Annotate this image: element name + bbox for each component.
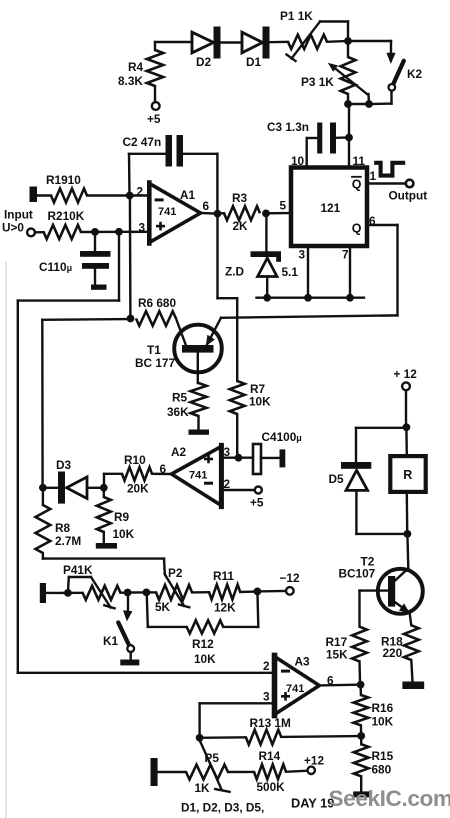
wire	[240, 590, 254, 593]
svg-text:741: 741	[158, 206, 176, 218]
wire pin3	[81, 231, 149, 234]
label Qbar	[352, 177, 362, 192]
wire pin10	[306, 138, 308, 167]
svg-text:7: 7	[342, 248, 349, 262]
ground R5	[189, 430, 210, 435]
wire	[228, 771, 254, 773]
node pin2 A1	[126, 192, 134, 200]
node R13/P5	[196, 734, 204, 742]
resistor R9	[97, 497, 111, 532]
wire	[158, 771, 186, 773]
svg-text:121: 121	[321, 201, 341, 215]
node pin3 drop	[115, 228, 123, 236]
svg-text:P3 1K: P3 1K	[301, 75, 334, 89]
wire	[121, 591, 126, 594]
wire	[103, 532, 105, 543]
wire	[358, 591, 360, 627]
svg-text:15K: 15K	[326, 648, 348, 662]
node R12 left top	[143, 589, 151, 597]
svg-text:R5: R5	[172, 391, 188, 405]
capacitor C1	[80, 251, 111, 290]
node R3/pin5	[262, 210, 270, 218]
terminal Input	[27, 229, 35, 237]
zener diode Z.D 5.1	[251, 251, 282, 294]
svg-text:10K: 10K	[194, 652, 216, 666]
wire	[411, 660, 412, 682]
svg-text:6: 6	[203, 199, 210, 213]
svg-text:P2: P2	[168, 566, 183, 580]
resistor R8	[36, 505, 51, 553]
svg-text:P5: P5	[205, 751, 220, 765]
label plus A3	[281, 692, 290, 701]
node zener/rail	[263, 294, 271, 302]
label minus A3	[281, 670, 290, 673]
wire	[218, 212, 225, 215]
wire	[348, 103, 369, 105]
svg-text:+ 12: + 12	[394, 367, 418, 381]
wire	[281, 735, 358, 738]
wire	[360, 736, 362, 744]
wire	[197, 416, 199, 430]
svg-text:10K: 10K	[372, 715, 394, 729]
svg-text:+12: +12	[304, 754, 324, 768]
terminal bar R1	[30, 187, 38, 203]
resistor R7	[230, 381, 245, 414]
svg-text:741: 741	[189, 470, 207, 482]
svg-text:3: 3	[263, 690, 270, 704]
wire rail	[257, 297, 365, 299]
wire pin2 down	[129, 196, 132, 319]
diode D2	[192, 27, 221, 59]
terminal +12 bottom	[308, 767, 315, 774]
resistor R14	[254, 764, 286, 779]
node A3 out	[357, 681, 365, 689]
svg-text:10K: 10K	[113, 527, 135, 541]
svg-text:680: 680	[372, 763, 392, 777]
wire pin3 A3	[200, 703, 274, 734]
label minus A1	[155, 198, 164, 201]
resistor R6	[136, 311, 176, 326]
svg-text:U>0: U>0	[2, 221, 24, 235]
ground R15	[353, 791, 371, 797]
svg-text:A1: A1	[180, 188, 196, 202]
wire A3 out	[319, 684, 357, 687]
svg-text:20K: 20K	[127, 482, 149, 496]
svg-text:R11: R11	[213, 569, 234, 583]
wire	[348, 40, 391, 42]
wire	[200, 736, 246, 739]
svg-text:12K: 12K	[214, 601, 236, 615]
svg-text:5.1: 5.1	[282, 265, 299, 279]
wire C2 right	[183, 154, 217, 214]
terminal Output	[406, 180, 414, 188]
resistor R5	[191, 383, 207, 416]
wire pin2	[87, 194, 149, 196]
svg-text:5: 5	[280, 199, 287, 213]
svg-text:1: 1	[370, 169, 377, 183]
svg-text:741: 741	[286, 683, 304, 695]
potentiometer P1	[287, 22, 349, 62]
transistor T1 BC177	[174, 318, 222, 383]
wire	[152, 473, 172, 476]
svg-text:R16: R16	[372, 701, 394, 715]
wire pin6-Q	[221, 225, 398, 318]
svg-text:1K: 1K	[195, 781, 211, 795]
node P4 wiper	[64, 589, 72, 597]
wire	[257, 590, 285, 593]
resistor R4	[147, 50, 163, 86]
svg-text:D5: D5	[329, 472, 345, 486]
wire pin3 A2	[222, 457, 253, 459]
svg-text:C2 47n: C2 47n	[123, 135, 162, 149]
potentiometer P5	[186, 765, 228, 780]
svg-text:P1 1K: P1 1K	[280, 9, 313, 23]
wire C2 left	[129, 154, 166, 196]
svg-text:R1910: R1910	[46, 173, 81, 187]
resistor R18	[404, 625, 419, 660]
scan edge line	[5, 262, 7, 818]
terminal bar P5	[151, 758, 158, 786]
svg-text:11: 11	[353, 154, 366, 168]
wire	[406, 492, 409, 531]
svg-text:SeekIC.com: SeekIC.com	[329, 786, 450, 811]
resistor R15	[354, 744, 369, 776]
svg-text:R3: R3	[232, 191, 248, 205]
node +12	[403, 423, 411, 431]
ground R18	[402, 682, 424, 690]
svg-text:8.3K: 8.3K	[118, 74, 143, 88]
diode D3	[46, 472, 100, 504]
svg-text:A2: A2	[171, 445, 187, 459]
wire pin2 A2	[222, 489, 255, 491]
svg-text:+5: +5	[147, 112, 161, 126]
svg-text:500K: 500K	[257, 780, 286, 794]
wire	[154, 86, 156, 102]
pulse waveform icon	[374, 163, 405, 176]
potentiometer P4	[62, 577, 121, 608]
wire	[43, 553, 165, 574]
resistor R1	[51, 189, 87, 203]
wire	[405, 427, 408, 456]
svg-text:10K: 10K	[249, 395, 271, 409]
wire pin1-output	[367, 182, 406, 184]
resistor R13	[246, 730, 281, 745]
node relay bottom	[404, 530, 412, 538]
wire	[192, 591, 209, 594]
terminal +5 A2	[255, 487, 262, 494]
node R6	[127, 315, 135, 323]
potentiometer P5 wiper	[200, 738, 230, 792]
svg-text:D3: D3	[56, 458, 72, 472]
svg-text:A3: A3	[295, 655, 311, 669]
switch K2	[386, 53, 403, 91]
node C1	[91, 228, 99, 236]
capacitor C3	[307, 123, 346, 154]
svg-text:BC107: BC107	[339, 567, 376, 581]
svg-text:BC 177: BC 177	[135, 356, 175, 370]
wire pin3 to rail	[18, 232, 119, 673]
terminal +5 (R4)	[152, 102, 160, 110]
svg-text:K2: K2	[407, 67, 423, 81]
potentiometer P2	[156, 574, 192, 607]
svg-text:D1: D1	[246, 55, 262, 69]
terminal +12 top	[402, 382, 410, 390]
wire	[128, 591, 144, 593]
node P3 bottom	[344, 100, 352, 108]
label plus A1	[156, 222, 165, 231]
wire	[405, 390, 407, 424]
wire	[286, 771, 307, 772]
wire	[37, 194, 51, 196]
resistor R12	[187, 620, 224, 633]
wire pin7	[349, 246, 351, 298]
svg-text:3: 3	[299, 248, 306, 262]
wire	[369, 91, 392, 104]
wire	[46, 592, 62, 594]
svg-text:Z.D: Z.D	[225, 265, 244, 279]
relay R	[390, 456, 425, 492]
wire	[221, 41, 243, 43]
wire L2 horiz	[42, 319, 130, 488]
wire	[146, 591, 156, 593]
svg-text:K1: K1	[103, 634, 119, 648]
wire pin11	[348, 138, 350, 168]
svg-text:R13 1M: R13 1M	[250, 716, 291, 730]
svg-text:R210K: R210K	[48, 209, 85, 223]
diode D5	[341, 462, 404, 534]
wire	[265, 213, 267, 251]
wire pin6 A1	[201, 212, 215, 215]
wire	[359, 685, 362, 695]
resistor R16	[354, 695, 369, 725]
svg-text:Q: Q	[352, 178, 362, 192]
wire	[410, 613, 412, 626]
svg-text:220: 220	[383, 646, 403, 660]
wire	[390, 41, 392, 54]
svg-text:Q: Q	[352, 222, 362, 236]
op-amp A2	[172, 445, 222, 506]
op-amp A1	[149, 183, 201, 244]
svg-text:C3 1.3n: C3 1.3n	[267, 120, 309, 134]
label minus A2	[204, 482, 213, 485]
node R16/R15/R13	[357, 732, 365, 740]
node D3 left	[39, 484, 47, 492]
svg-text:+5: +5	[250, 496, 264, 510]
svg-text:C4100μ: C4100μ	[262, 430, 302, 444]
wire	[236, 414, 238, 458]
svg-text:R12: R12	[192, 637, 214, 651]
wire	[360, 776, 362, 791]
node A2 pin3	[235, 454, 243, 462]
wire	[35, 231, 44, 234]
resistor R10	[122, 467, 152, 480]
node K1 top	[124, 589, 132, 597]
wire	[103, 488, 105, 497]
wire	[223, 594, 258, 627]
wire pin5	[266, 212, 291, 215]
wire	[155, 42, 192, 50]
wire A1out down	[218, 214, 238, 381]
switch K1	[118, 593, 139, 666]
ground R9	[96, 543, 117, 549]
op-amp A3	[274, 655, 319, 715]
svg-text:−12: −12	[280, 571, 300, 585]
capacitor C2	[166, 135, 184, 167]
svg-text:R8: R8	[55, 521, 71, 535]
label plus A2	[204, 455, 213, 464]
node C3/pin11	[345, 134, 353, 142]
svg-text:T1: T1	[147, 343, 161, 357]
svg-text:R10: R10	[124, 453, 146, 467]
wire	[94, 232, 96, 251]
transistor T2 BC107	[360, 568, 423, 614]
svg-text:R4: R4	[128, 60, 144, 74]
svg-text:R6 680: R6 680	[138, 296, 176, 310]
node pin3/rail	[304, 294, 312, 302]
capacitor C4	[253, 444, 285, 474]
node P1/P3/K2	[344, 37, 352, 45]
svg-text:2.7M: 2.7M	[55, 534, 81, 548]
svg-text:R: R	[403, 468, 412, 482]
resistor R17	[352, 627, 367, 662]
svg-text:R9: R9	[114, 510, 130, 524]
wire	[347, 94, 349, 104]
svg-text:D1, D2, D3, D5,: D1, D2, D3, D5,	[181, 801, 264, 815]
svg-text:10: 10	[291, 154, 305, 168]
resistor R11	[209, 585, 240, 600]
svg-text:5K: 5K	[155, 600, 171, 614]
svg-text:Output: Output	[389, 189, 428, 203]
wire A3 pin2 rail	[18, 672, 274, 674]
terminal bar P4	[40, 583, 46, 603]
wire	[360, 725, 363, 732]
diode D1	[242, 27, 270, 59]
svg-text:D2: D2	[196, 55, 212, 69]
resistor R2	[44, 225, 81, 239]
wire pin3	[307, 246, 309, 298]
svg-text:2K: 2K	[233, 219, 249, 233]
wire	[270, 41, 289, 44]
terminal -12	[286, 587, 294, 595]
node R11 right	[254, 588, 262, 596]
wire	[358, 661, 361, 681]
svg-text:R15: R15	[372, 749, 394, 763]
svg-text:C110μ: C110μ	[39, 260, 72, 274]
wire	[327, 22, 348, 42]
potentiometer P3	[328, 41, 369, 104]
resistor R3	[224, 206, 260, 220]
wire	[406, 534, 409, 568]
wire	[147, 592, 187, 627]
wire	[42, 488, 44, 505]
svg-text:2: 2	[263, 659, 270, 673]
node A1 out	[214, 210, 222, 218]
svg-text:R14: R14	[259, 749, 281, 763]
svg-text:P41K: P41K	[63, 563, 93, 577]
node D3 right	[100, 484, 108, 492]
wire D5 branch	[356, 428, 406, 462]
IC U1 121 monostable	[291, 168, 367, 247]
wire	[104, 474, 122, 485]
svg-text:Input: Input	[4, 208, 33, 222]
svg-text:36K: 36K	[167, 405, 189, 419]
node pin7/rail	[346, 294, 354, 302]
wire	[348, 104, 350, 134]
node K2/P3 wiper	[365, 100, 373, 108]
